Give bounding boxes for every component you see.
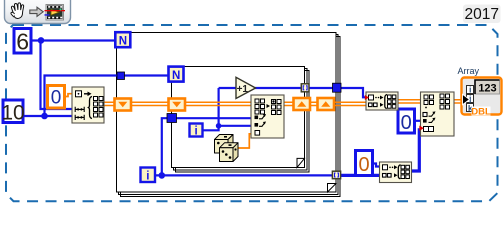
svg-text:123: 123: [478, 83, 496, 95]
svg-text:DBL: DBL: [471, 107, 491, 118]
svg-text:i: i: [194, 125, 197, 137]
svg-text:2017: 2017: [464, 6, 498, 23]
svg-text:N: N: [119, 36, 127, 48]
svg-text:N: N: [172, 70, 180, 82]
svg-text:+1: +1: [237, 84, 249, 95]
svg-text:i: i: [469, 85, 471, 94]
svg-text:Array: Array: [458, 66, 480, 76]
svg-text:0: 0: [358, 154, 369, 176]
svg-text:6: 6: [16, 28, 29, 54]
svg-text:10: 10: [1, 102, 24, 125]
svg-text:i: i: [146, 170, 149, 182]
svg-text:0: 0: [51, 88, 62, 109]
svg-text:0: 0: [401, 112, 412, 134]
